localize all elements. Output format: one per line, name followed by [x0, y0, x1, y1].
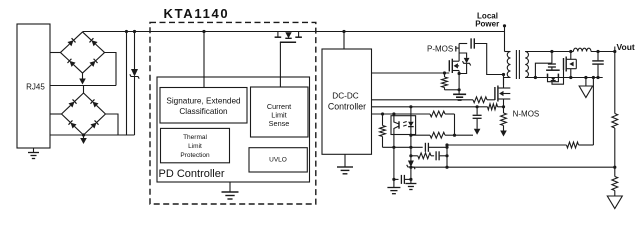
node opto anode — [409, 105, 412, 108]
node Vout — [613, 50, 616, 53]
wire M1 drain to top — [570, 52, 572, 60]
wire R-pg to shared ground — [445, 89, 460, 91]
resistor R-s source sense — [501, 113, 507, 126]
TVS zener diode D1 — [131, 69, 138, 77]
svg-text:Controller: Controller — [328, 102, 366, 112]
wire Local Power to transformer primary — [504, 26, 506, 52]
node BR2 bottom on return rail — [82, 133, 85, 136]
node divider tap — [613, 166, 616, 169]
resistor R-pg pulldown — [444, 73, 446, 77]
wire DC-DC to P-MOS gate — [372, 72, 450, 74]
svg-text:UVLO: UVLO — [269, 157, 287, 164]
svg-text:Signature, Extended: Signature, Extended — [166, 97, 241, 106]
wire M1 gate link — [552, 70, 564, 84]
node F top — [445, 146, 448, 149]
wire M1 source to rail — [570, 69, 572, 78]
transistor M1 forward switch — [563, 58, 565, 70]
opto phototransistor side — [393, 116, 395, 121]
wire to TVS diode — [134, 32, 136, 70]
opto-coupler U2 box — [391, 116, 416, 135]
node F on rail L2 — [445, 166, 448, 169]
wire opto cathode lateral — [411, 134, 430, 136]
wire divider to ground — [614, 191, 616, 197]
wire clamp cap to primary bottom — [475, 44, 504, 75]
node rail junction B — [133, 30, 136, 33]
transistor N-MOS Q3 — [494, 87, 496, 100]
svg-text:Power: Power — [475, 19, 499, 28]
ground secondary (chassis) — [585, 78, 587, 87]
wire primary bottom to switch node — [504, 78, 511, 86]
node riser on secondary rail — [592, 76, 595, 79]
Current Limit Sense block — [251, 87, 309, 137]
ground divider (chassis) — [607, 196, 622, 209]
wire gate drive left leg — [535, 63, 552, 77]
resistor R-b branch — [382, 114, 384, 126]
wire rail to DC-DC controller — [343, 32, 345, 50]
internal pass MOSFET Q1 — [277, 32, 279, 38]
resistor R-d1 divider top — [612, 114, 618, 129]
wire RJ45 to bridge BR1 left vertex — [50, 52, 61, 54]
svg-text:Thermal: Thermal — [183, 134, 207, 141]
svg-text:N-MOS: N-MOS — [513, 109, 540, 118]
ground under PD Controller — [229, 182, 231, 192]
wire feedback rail L2 — [411, 166, 615, 168]
node secondary ground stub — [584, 76, 587, 79]
KTA1140 dashed boundary box — [150, 22, 316, 204]
svg-text:P-MOS: P-MOS — [427, 45, 453, 54]
svg-text:KTA1140: KTA1140 — [164, 6, 230, 21]
transistor P-MOS Q2 — [448, 60, 450, 71]
resistor R-fb1 feedback — [430, 111, 445, 117]
node sense cap tap — [476, 105, 479, 108]
node rail junction A — [125, 30, 128, 33]
capacitor C-out — [597, 52, 599, 61]
wire TVS to return rail — [134, 77, 136, 136]
svg-text:Classification: Classification — [179, 107, 228, 116]
wire P-MOS source down — [458, 71, 460, 95]
resistor R-g N-MOS gate — [473, 97, 487, 103]
wire riser B lower — [410, 167, 412, 184]
wire secondary bottom rail — [525, 77, 603, 79]
node output cap tap — [596, 50, 599, 53]
clamp capacitor C-cl — [459, 43, 467, 45]
DC-DC Controller block box — [322, 49, 372, 154]
wire riser to secondary rail — [592, 78, 594, 146]
wire opto anode to sense line — [410, 107, 412, 116]
wire N-MOS source down — [503, 99, 505, 113]
wire lower lateral stub — [455, 134, 474, 136]
node lower lateral junction — [453, 134, 456, 137]
wire BR2 right vertex riser — [106, 114, 119, 135]
svg-text:Vout: Vout — [617, 42, 635, 52]
wire bottom return rail from RJ45 — [50, 134, 135, 136]
UVLO block — [249, 148, 307, 172]
capacitor C-e lower link — [394, 178, 399, 180]
svg-text:RJ45: RJ45 — [26, 83, 45, 92]
svg-text:Sense: Sense — [269, 119, 290, 128]
wire mid rail from RJ45 — [50, 85, 116, 87]
node riser A compensation tap — [392, 146, 395, 149]
wire vertical node F — [446, 145, 448, 167]
wire Vout down — [614, 52, 616, 114]
node gate drive tap — [550, 50, 553, 53]
zener across P-MOS — [459, 53, 467, 58]
node rail to DC-DC tap — [342, 30, 345, 33]
wire compensation line — [383, 146, 423, 148]
arrow BR1 negative output to mid rail — [82, 73, 84, 80]
wire vertical from rail to return rail — [126, 32, 128, 136]
RJ45 jack block — [17, 24, 50, 148]
arrow N-MOS source to return — [503, 126, 505, 131]
wire BR2 top vertex stub to mid rail — [83, 86, 85, 94]
node left leg on rail — [534, 76, 537, 79]
ground under RJ45 — [33, 148, 35, 153]
svg-text:DC-DC: DC-DC — [332, 92, 358, 101]
wire BR1 right vertex riser — [105, 53, 117, 86]
node M1 source on rail — [569, 76, 572, 79]
node branch resistor tap — [381, 112, 384, 115]
capacitor C-f1 compensation — [424, 143, 426, 152]
resistor R-f and capacitor C-f2 series branch — [411, 155, 418, 157]
wire emitter riser A — [393, 135, 395, 188]
PD Controller block box — [157, 77, 310, 182]
node riser B lower link — [409, 178, 412, 181]
transformer T1 — [505, 51, 511, 53]
svg-text:Protection: Protection — [180, 152, 210, 159]
wire DC-DC feedback line — [372, 113, 431, 115]
node N-MOS source sense — [502, 105, 505, 108]
ground under DC-DC controller — [344, 154, 346, 167]
wire inductor to Vout — [591, 51, 615, 53]
wire cathode riser B upper — [410, 135, 412, 161]
zener D-z on riser B — [408, 161, 414, 168]
wire DC-DC current sense — [372, 106, 488, 108]
capacitor C-s with return arrow — [476, 107, 478, 115]
node F r-k tap — [445, 143, 448, 146]
svg-text:PD Controller: PD Controller — [159, 168, 225, 180]
node opto cathode lateral tap — [409, 134, 412, 137]
ground under P-MOS — [453, 93, 466, 95]
capacitor C-g gate drive — [551, 52, 553, 64]
node riser B compensation tap — [409, 146, 412, 149]
wire Q1 gate to PD controller — [279, 42, 281, 87]
node P-MOS gate resistor tap — [443, 71, 446, 74]
node riser A lower link — [392, 178, 395, 181]
wire main positive rail VDD — [83, 31, 505, 33]
wire opto collector riser — [393, 114, 395, 116]
wire DC-DC to N-MOS gate resistor — [372, 99, 474, 101]
svg-text:Limit: Limit — [188, 143, 202, 150]
diode bridge BR2 — [60, 91, 86, 116]
wire feedback corner down — [454, 114, 456, 135]
wire N-MOS drain — [503, 79, 505, 89]
node primary bottom switch — [502, 73, 505, 76]
Thermal Limit Protection block — [161, 128, 230, 162]
resistor R-k — [567, 142, 579, 148]
node riser B rail L2 tap — [409, 166, 412, 169]
resistor R-d2 divider bottom — [612, 177, 618, 191]
ground under riser A — [387, 187, 400, 189]
inductor L1 output — [573, 48, 591, 51]
wire rail tap down to PD controller — [203, 32, 205, 88]
wire node F to secondary ground riser — [447, 144, 567, 146]
wire secondary top — [525, 51, 573, 53]
diode bridge BR1 — [59, 30, 85, 55]
node output cap on rail — [596, 76, 599, 79]
arrow BR2 negative output — [83, 136, 85, 138]
wire divider middle — [614, 128, 616, 177]
node opto collector tap — [392, 112, 395, 115]
node Local Power stub — [503, 24, 506, 27]
label Vout — [614, 47, 616, 52]
wire RJ45 to bridge BR2 left vertex — [50, 113, 62, 115]
node rail to PD controller tap — [202, 30, 205, 33]
opto LED side — [410, 116, 412, 122]
ground under riser B — [405, 183, 416, 185]
node F mid — [445, 154, 448, 157]
wire P-MOS drain up — [458, 44, 460, 62]
resistor R-fb2 feedback — [430, 132, 445, 138]
transistor M2 sync rectifier — [546, 69, 560, 71]
Signature Extended Classification block — [160, 88, 247, 124]
